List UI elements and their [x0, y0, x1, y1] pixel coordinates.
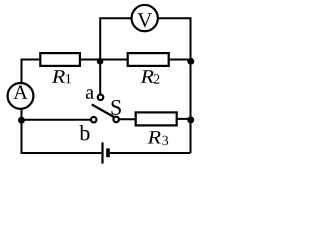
label S [112, 100, 121, 115]
resistor R1 [40, 53, 80, 66]
switch S blade [92, 105, 115, 118]
contact a of switch [98, 95, 104, 101]
wire switch pivot to R3 [120, 118, 136, 120]
voltmeter U-V [132, 5, 158, 31]
wire left junction right to contact b [22, 119, 91, 121]
node junction dot right of R2 [187, 58, 194, 65]
wire left junction down to bottom row and right to battery [22, 120, 102, 153]
node junction dot right of R3 [187, 116, 194, 123]
wire battery right to bottom-right corner [110, 152, 191, 154]
switch S pivot contact [113, 117, 119, 123]
label a [86, 89, 94, 99]
wire R3 right to right column [177, 118, 191, 120]
wire ammeter bottom to left junction [21, 109, 23, 120]
label b [79, 125, 89, 141]
label R3 [148, 131, 169, 145]
wire from voltmeter right to top-right corner and down right column [159, 18, 191, 153]
wire R2 right to right column [169, 59, 191, 61]
battery short negative plate [106, 148, 110, 157]
wire top branch from node above switch up and right to voltmeter [100, 18, 131, 94]
ammeter U-A [8, 83, 34, 109]
node junction dot left (below ammeter) [18, 117, 25, 124]
battery long positive plate [101, 142, 103, 163]
contact b of switch [91, 117, 97, 123]
resistor R2 [128, 53, 169, 66]
resistor R3 [136, 112, 177, 125]
label R1 [52, 70, 71, 83]
wire left bend into R1 and down to ammeter [22, 60, 41, 83]
wire between R1 and middle junction [80, 59, 128, 61]
node junction dot between R1 and R2 [97, 58, 104, 65]
label R2 [141, 70, 160, 83]
